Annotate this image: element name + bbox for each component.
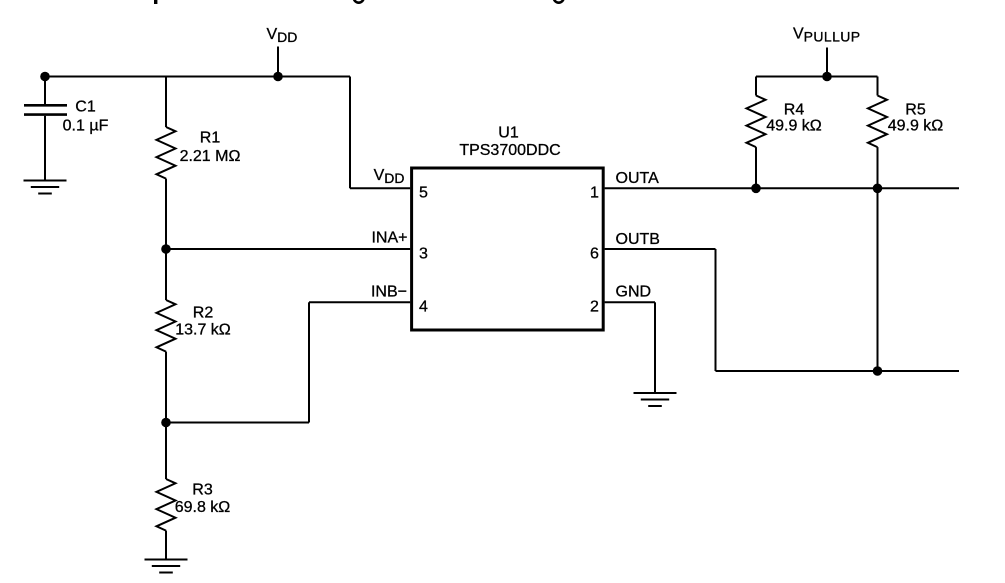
- svg-text:R4: R4: [784, 102, 805, 119]
- svg-text:GND: GND: [616, 284, 652, 301]
- svg-text:2: 2: [590, 299, 599, 316]
- svg-text:69.8 kΩ: 69.8 kΩ: [175, 499, 231, 516]
- svg-text:13.7 kΩ: 13.7 kΩ: [175, 322, 231, 339]
- svg-text:R3: R3: [192, 482, 213, 499]
- svg-text:C1: C1: [75, 99, 96, 116]
- svg-text:4: 4: [419, 299, 428, 316]
- svg-text:VPULLUP: VPULLUP: [793, 26, 861, 45]
- svg-text:U1: U1: [498, 125, 519, 142]
- svg-text:49.9 kΩ: 49.9 kΩ: [888, 118, 944, 135]
- svg-text:INB−: INB−: [371, 284, 407, 301]
- svg-text:2.21 MΩ: 2.21 MΩ: [180, 148, 241, 165]
- svg-text:R1: R1: [200, 130, 221, 147]
- svg-text:OUTA: OUTA: [616, 170, 660, 187]
- svg-text:R2: R2: [193, 305, 214, 322]
- svg-text:OUTB: OUTB: [616, 231, 660, 248]
- svg-text:R5: R5: [905, 102, 926, 119]
- svg-text:VDD: VDD: [374, 167, 405, 186]
- svg-text:5: 5: [419, 185, 428, 202]
- svg-text:6: 6: [590, 245, 599, 262]
- svg-text:1: 1: [590, 185, 599, 202]
- svg-text:VDD: VDD: [267, 26, 298, 45]
- svg-text:INA+: INA+: [371, 230, 407, 247]
- svg-text:0.1 µF: 0.1 µF: [63, 118, 109, 135]
- svg-text:TPS3700DDC: TPS3700DDC: [459, 142, 560, 159]
- svg-text:3: 3: [419, 245, 428, 262]
- svg-text:49.9 kΩ: 49.9 kΩ: [766, 118, 822, 135]
